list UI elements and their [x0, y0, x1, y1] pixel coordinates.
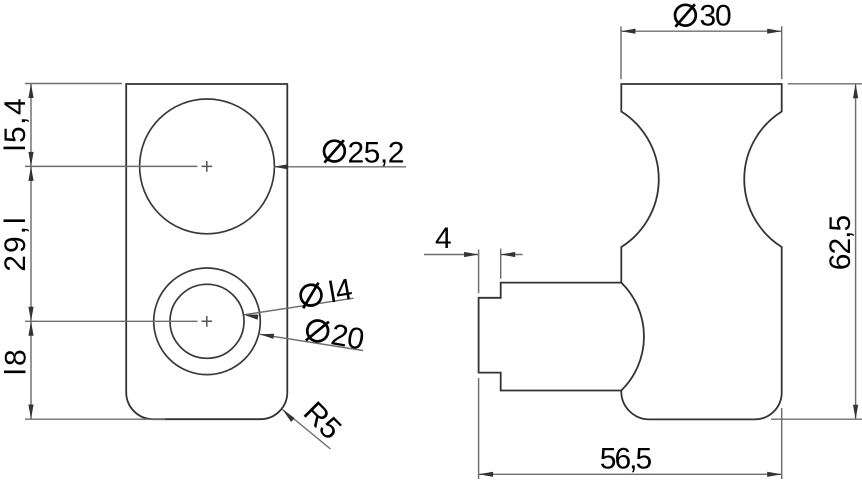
dim 4 arrows: [424, 254, 478, 256]
leader R5: [283, 410, 331, 450]
dim 4 extension lines: [478, 250, 480, 294]
extension line top: [25, 83, 122, 85]
extension line bottom: [25, 418, 165, 420]
svg-text:20: 20: [329, 318, 367, 356]
center cross top: [202, 161, 213, 172]
svg-text:29,l: 29,l: [0, 215, 32, 271]
56,5 extension lines: [478, 378, 480, 479]
centerline bottom circle: [25, 320, 198, 322]
left dimension chain line: [30, 84, 32, 420]
svg-text:56,5: 56,5: [600, 442, 652, 475]
leader D20: [260, 334, 363, 350]
label D30: [675, 4, 696, 27]
boss circle D20: [154, 268, 261, 375]
svg-text:30: 30: [700, 0, 731, 33]
svg-text:4: 4: [435, 222, 452, 255]
label D25,2: [324, 140, 345, 163]
56,5 dimension line: [479, 473, 782, 475]
center cross bottom: [202, 316, 213, 327]
arrow up at top: [28, 84, 33, 99]
body outline: [479, 84, 782, 419]
hole circle D14: [170, 284, 244, 358]
plate outline (rounded bottom corners R5): [126, 84, 287, 419]
arrows at tick 166.4: [28, 152, 33, 167]
arrows at tick 321.3: [28, 307, 33, 322]
hole circle D25.2: [140, 99, 275, 234]
svg-text:25,2: 25,2: [348, 136, 404, 169]
centerline top circle: [25, 165, 198, 167]
svg-text:62,5: 62,5: [824, 215, 857, 270]
label D14: [298, 273, 355, 315]
label D20: [304, 314, 366, 356]
62,5 dimension line: [855, 84, 857, 419]
leader D25,2: [274, 166, 407, 168]
svg-text:l5,4: l5,4: [0, 97, 32, 151]
D30 dimension line: [621, 30, 782, 32]
62,5 extension lines: [788, 83, 862, 85]
svg-text:l8: l8: [0, 347, 33, 375]
internal bulge arc: [621, 283, 644, 391]
arrow down at bottom: [28, 405, 33, 420]
D30 extension lines: [620, 26, 622, 79]
leader D14: [244, 298, 354, 315]
